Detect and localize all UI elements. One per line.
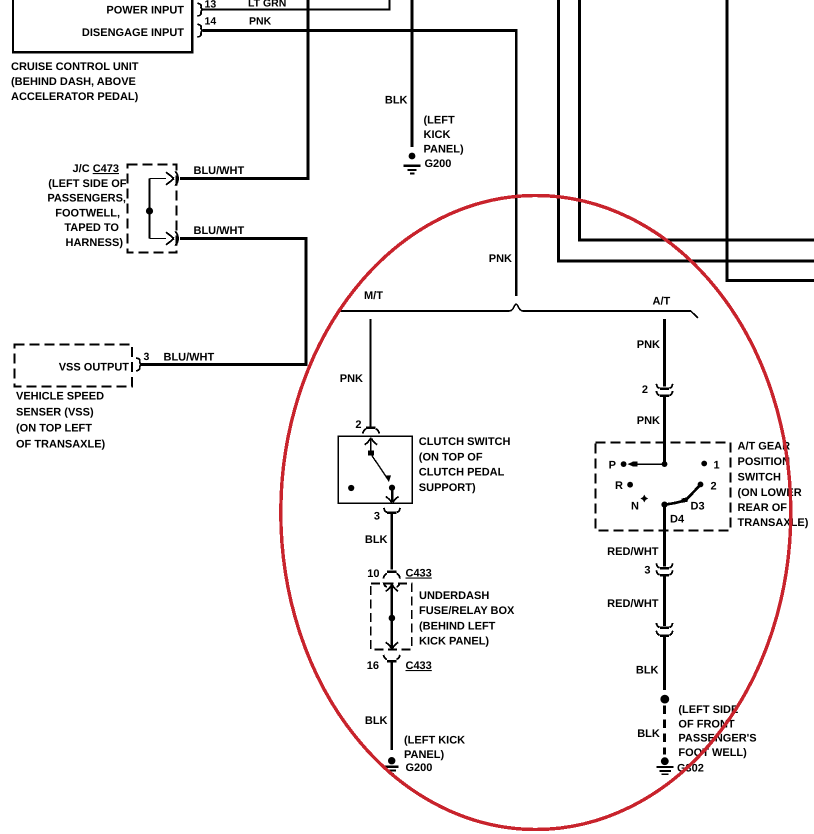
A/T switch P contact dot (621, 461, 627, 467)
svg-text:(LEFT: (LEFT (424, 114, 455, 126)
svg-text:3: 3 (644, 565, 650, 577)
node split symbol under PNK riser (510, 304, 523, 311)
svg-text:PNK: PNK (249, 16, 272, 28)
svg-text:PNK: PNK (489, 253, 512, 265)
svg-text:A/T GEAR: A/T GEAR (738, 441, 791, 453)
wire BLU/WHT riser from top edge to J/C C473 (180, 0, 308, 179)
clutch switch fixed contact (square) (368, 450, 374, 455)
clutch switch lower contact dot (389, 485, 395, 491)
svg-text:KICK: KICK (424, 129, 451, 141)
svg-text:BLK: BLK (637, 728, 660, 740)
svg-text:14: 14 (205, 16, 217, 28)
svg-text:TAPED TO: TAPED TO (64, 222, 119, 234)
svg-text:BLK: BLK (385, 95, 408, 107)
svg-text:PASSENGERS,: PASSENGERS, (47, 193, 126, 205)
svg-text:2: 2 (711, 481, 717, 493)
connector C433 pin 10 terminal pair (384, 572, 400, 587)
svg-text:(BEHIND DASH, ABOVE: (BEHIND DASH, ABOVE (11, 76, 136, 88)
svg-text:16: 16 (367, 660, 379, 672)
ground G302 (657, 757, 674, 774)
fuse box internal junction dot (389, 615, 396, 622)
inline connector terminal pair (unnamed) (656, 623, 672, 636)
svg-text:FOOTWELL,: FOOTWELL, (55, 207, 120, 219)
svg-text:PNK: PNK (637, 339, 660, 351)
A/T switch N contact star (640, 495, 648, 503)
svg-text:OF TRANSAXLE): OF TRANSAXLE) (16, 438, 106, 450)
C473 internal junction dot (146, 207, 153, 214)
svg-text:REAR OF: REAR OF (738, 502, 788, 514)
svg-text:HARNESS): HARNESS) (66, 237, 124, 249)
svg-text:SUPPORT): SUPPORT) (419, 482, 476, 494)
A/T switch 2 contact dot (698, 482, 704, 488)
svg-text:BLK: BLK (365, 534, 388, 546)
inline connector terminal pair (A/T pin 3) (656, 563, 672, 575)
svg-text:RED/WHT: RED/WHT (607, 546, 659, 558)
svg-text:CRUISE CONTROL UNIT: CRUISE CONTROL UNIT (11, 61, 139, 73)
A/T switch link wire to P contact (637, 463, 665, 465)
underdash fuse/relay box dashed outline (371, 584, 412, 650)
svg-text:BLU/WHT: BLU/WHT (194, 225, 245, 237)
svg-text:10: 10 (367, 568, 379, 580)
wire RED/WHT lower (663, 576, 666, 626)
svg-text:(ON TOP OF: (ON TOP OF (419, 451, 483, 463)
svg-text:UNDERDASH: UNDERDASH (419, 590, 489, 602)
cruise control unit U1 box (13, 0, 192, 52)
svg-text:BLU/WHT: BLU/WHT (164, 352, 215, 364)
svg-text:R: R (615, 480, 623, 492)
connector C433 pin 16 terminal pair (384, 655, 400, 661)
clutch switch pin 3 connector terminal below box (384, 508, 400, 513)
junction connector C473 dashed box (128, 165, 177, 253)
svg-text:3: 3 (374, 511, 380, 523)
A/T switch common node dot (662, 461, 668, 467)
wire PNK from pin 14 to right then down (203, 31, 516, 297)
pin 14 bracket (197, 24, 203, 37)
ground G200 (left kick panel) (404, 153, 421, 174)
wire PNK M/T branch (369, 319, 371, 426)
svg-text:SENSER (VSS): SENSER (VSS) (16, 407, 94, 419)
wire PNK A/T branch upper (663, 319, 666, 386)
svg-text:P: P (609, 460, 616, 472)
clutch switch box (338, 436, 412, 503)
svg-text:LT GRN: LT GRN (248, 0, 286, 10)
svg-text:PANEL): PANEL) (404, 749, 444, 761)
wire M/T - A/T branch line (340, 311, 698, 318)
wire vertical from top edge turning right at y 280 (726, 0, 814, 281)
A/T switch P contact arrow (633, 462, 638, 467)
wire vertical from top edge turning right at y 240 (578, 0, 814, 240)
svg-text:DISENGAGE INPUT: DISENGAGE INPUT (82, 27, 184, 39)
svg-text:2: 2 (355, 419, 361, 431)
svg-text:CLUTCH PEDAL: CLUTCH PEDAL (419, 467, 505, 479)
svg-text:VEHICLE SPEED: VEHICLE SPEED (16, 391, 104, 403)
svg-text:RED/WHT: RED/WHT (607, 598, 659, 610)
svg-text:M/T: M/T (364, 290, 383, 302)
svg-text:1: 1 (714, 460, 720, 472)
wire RED/WHT from A/T switch (663, 505, 666, 567)
vehicle speed sensor dashed box (15, 345, 133, 387)
C473 bottom connector terminal (166, 232, 174, 244)
C473 top stub wire (150, 178, 167, 180)
svg-text:FUSE/RELAY BOX: FUSE/RELAY BOX (419, 605, 515, 617)
svg-text:PANEL): PANEL) (424, 144, 464, 156)
svg-text:(ON TOP LEFT: (ON TOP LEFT (16, 423, 92, 435)
VSS pin 3 bracket (136, 358, 142, 371)
red highlight ellipse (281, 196, 791, 830)
svg-text:A/T: A/T (653, 296, 671, 308)
wire BLU/WHT from C473 down to VSS output (141, 239, 307, 365)
wire BLK from C433 to ground G200 (390, 662, 393, 750)
svg-text:(LEFT SIDE: (LEFT SIDE (678, 704, 738, 716)
svg-text:FOOT WELL): FOOT WELL) (678, 747, 747, 759)
svg-text:D3: D3 (691, 501, 705, 513)
svg-text:C433: C433 (406, 660, 432, 672)
svg-text:VSS OUTPUT: VSS OUTPUT (59, 362, 130, 374)
C473 bottom stub wire (150, 238, 167, 240)
wire BLK solid segment (663, 637, 666, 684)
svg-text:PNK: PNK (637, 415, 660, 427)
svg-text:(BEHIND LEFT: (BEHIND LEFT (419, 620, 496, 632)
A/T switch 1 contact dot (701, 461, 707, 467)
svg-text:J/C C473: J/C C473 (73, 163, 119, 175)
A/T gear position switch dashed box (596, 443, 731, 531)
svg-text:G200: G200 (425, 158, 452, 170)
svg-text:G200: G200 (406, 762, 433, 774)
svg-text:TRANSAXLE): TRANSAXLE) (738, 517, 809, 529)
wire BLK from clutch switch to C433 (390, 514, 393, 570)
wire PNK A/T branch lower (663, 397, 666, 464)
svg-text:(LEFT SIDE OF: (LEFT SIDE OF (48, 178, 127, 190)
A/T switch lever contact square (681, 497, 688, 503)
svg-text:BLK: BLK (365, 715, 388, 727)
svg-text:POSITION: POSITION (738, 456, 791, 468)
clutch switch spare contact dot (348, 485, 354, 491)
svg-text:SWITCH: SWITCH (738, 472, 781, 484)
clutch switch pin 2 connector terminal (363, 428, 379, 434)
wire BLK from top edge to ground G200 (411, 0, 414, 147)
A/T switch lever arm (665, 485, 701, 505)
wire vertical from top edge turning right at y 261 (557, 0, 814, 261)
svg-text:PNK: PNK (340, 373, 363, 385)
clutch switch internal exit wire with down arrow (pin 3) (386, 488, 399, 503)
svg-text:ACCELERATOR PEDAL): ACCELERATOR PEDAL) (11, 91, 139, 103)
svg-text:CLUTCH SWITCH: CLUTCH SWITCH (419, 436, 511, 448)
svg-text:D4: D4 (670, 514, 685, 526)
svg-text:KICK PANEL): KICK PANEL) (419, 636, 489, 648)
wire LT GRN from pin 13 up off page (203, 0, 390, 10)
svg-text:N: N (631, 501, 639, 513)
svg-text:BLU/WHT: BLU/WHT (194, 165, 245, 177)
C473 top connector terminal (166, 172, 174, 184)
svg-text:BLK: BLK (636, 665, 659, 677)
A/T switch D4 contact dot (661, 502, 667, 508)
pin 13 bracket (197, 3, 203, 16)
ground G200 (left kick panel, M/T branch) (385, 757, 398, 774)
A/T switch R contact dot (627, 482, 633, 488)
splice dot (660, 695, 669, 704)
inline connector terminal pair (A/T pin 2) (656, 384, 672, 396)
clutch switch movable arm (372, 455, 388, 479)
clutch switch arm arrowhead (384, 474, 391, 482)
wire BLK dashed segment to ground G302 (663, 706, 666, 755)
C473 internal bus wire (149, 179, 151, 239)
svg-text:2: 2 (642, 384, 648, 396)
clutch switch internal entry arrow (pin 2) (365, 438, 378, 453)
svg-text:POWER INPUT: POWER INPUT (106, 5, 184, 17)
fuse box internal wire with entry arrow (386, 585, 399, 649)
svg-text:3: 3 (144, 351, 150, 363)
svg-text:C433: C433 (406, 568, 432, 580)
short dashed lead above splice (663, 684, 666, 694)
svg-text:(LEFT KICK: (LEFT KICK (404, 735, 465, 747)
